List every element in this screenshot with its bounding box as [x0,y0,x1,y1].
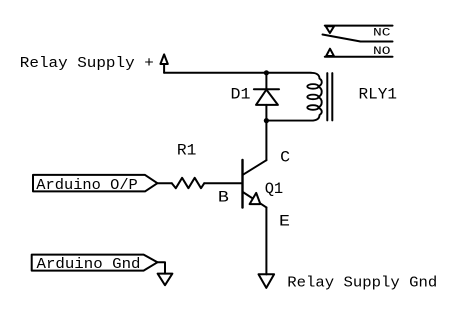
wire collector vertical [265,121,267,161]
svg-text:NC: NC [373,28,391,40]
ground symbol Relay Supply Gnd [259,274,275,288]
wire emitter vertical [265,207,267,274]
relay core line 1 [326,73,328,120]
svg-text:C: C [280,148,290,166]
svg-text:D1: D1 [231,86,251,104]
svg-text:Arduino O/P: Arduino O/P [36,177,138,194]
wire base [204,182,241,184]
wire diode top [265,73,267,90]
wire supply stub down [163,64,165,73]
svg-text:B: B [218,188,229,206]
transistor Q1 collector diagonal [243,160,267,175]
transistor Q1 base bar [241,160,243,208]
transistor Q1 emitter arrow [250,193,261,204]
svg-text:Q1: Q1 [265,180,284,198]
junction node top [264,70,269,75]
wire arduino gnd [157,262,165,273]
svg-text:Arduino Gnd: Arduino Gnd [37,256,141,273]
diode D1 triangle [256,90,278,105]
wire flag to resistor [157,182,172,184]
resistor R1 zigzag [172,178,204,188]
relay contact common line (pole P) [325,25,393,27]
svg-text:R1: R1 [177,141,197,159]
NC contact line [361,41,393,43]
svg-text:Relay Supply Gnd: Relay Supply Gnd [287,274,437,291]
supply arrow (Relay Supply +) [160,54,167,64]
coil loop 3 [307,105,318,110]
relay core line 2 [331,73,333,120]
NO contact terminal triangle [326,49,334,56]
net flag Arduino O/P [33,175,157,192]
wire node to coil top [266,72,311,74]
NO contact line [325,56,393,58]
coil loop 1 [307,84,318,89]
pole terminal triangle [326,26,334,33]
wire supply to node [164,72,266,74]
coil loop 2 [307,95,318,100]
ground symbol Arduino Gnd [158,274,173,286]
svg-text:E: E [279,212,290,230]
net flag Arduino Gnd [32,255,158,271]
transistor Q1 emitter diagonal [243,192,267,207]
diode D1 cathode bar [254,88,279,90]
svg-text:NO: NO [373,46,391,58]
junction node bottom [264,118,269,123]
relay coil RLY1 body [266,73,321,121]
contact arm (wiper) [323,35,361,42]
svg-text:Relay Supply +: Relay Supply + [20,55,154,72]
wire diode bottom [265,105,267,121]
svg-text:RLY1: RLY1 [359,86,398,104]
